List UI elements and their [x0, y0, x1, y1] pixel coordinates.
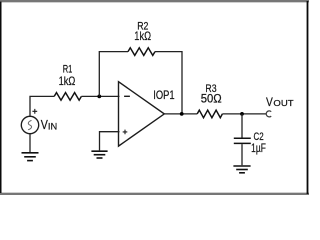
- node C junction to C2: [240, 112, 244, 116]
- svg-text:50Ω: 50Ω: [201, 92, 222, 106]
- wire R1 to op-amp inverting input: [81, 95, 119, 97]
- op-amp U1 (IOP1): [119, 82, 165, 146]
- resistor R3: [197, 110, 222, 118]
- svg-text:IN: IN: [48, 121, 57, 131]
- decorative frame (not a circuit element): [0, 0, 309, 2]
- label VIN: [41, 117, 58, 132]
- resistor R1: [54, 93, 81, 101]
- svg-text:1kΩ: 1kΩ: [134, 29, 151, 43]
- svg-text:1kΩ: 1kΩ: [59, 74, 76, 88]
- wire op-amp output to R3: [164, 113, 197, 115]
- capacitor C2: [234, 138, 251, 143]
- ground under op-amp non-inverting input: [91, 151, 107, 158]
- wire node C down to C2: [241, 114, 243, 138]
- wire non-inverting input to ground: [100, 132, 120, 151]
- svg-text:IOP1: IOP1: [153, 89, 174, 102]
- svg-text:OUT: OUT: [273, 98, 293, 108]
- label R2 1kΩ: [134, 20, 151, 43]
- label VOUT: [266, 95, 294, 109]
- wire C2 to ground: [241, 144, 243, 165]
- source VIN: [21, 109, 38, 134]
- wire VIN top to R1: [30, 96, 54, 116]
- node A junction of R1, R2 and inverting input: [97, 95, 101, 99]
- ground under C2: [233, 166, 250, 173]
- wire feedback from node A up to R2: [99, 52, 128, 97]
- resistor R2: [128, 48, 155, 56]
- svg-text:1µF: 1µF: [251, 141, 266, 155]
- wire R2 down to op-amp output: [155, 52, 182, 114]
- terminal VOUT: [266, 111, 271, 117]
- node B junction of output and feedback: [180, 112, 184, 116]
- wire VIN bottom to ground: [29, 134, 31, 152]
- ground under VIN: [22, 153, 39, 161]
- label C2 1µF: [251, 131, 266, 155]
- label R1 1kΩ: [59, 64, 76, 89]
- wire R3 to VOUT terminal: [222, 113, 266, 115]
- label R3 50Ω: [201, 83, 222, 106]
- svg-text:V: V: [266, 95, 273, 109]
